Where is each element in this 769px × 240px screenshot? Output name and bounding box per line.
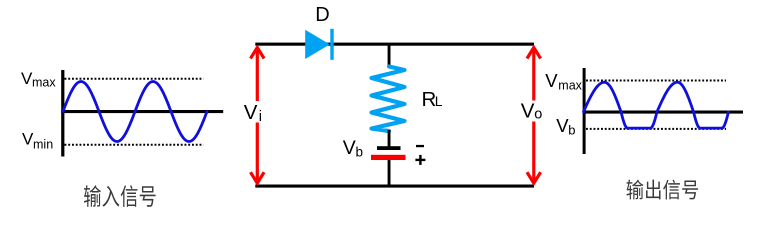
diode D cathode bar	[330, 29, 333, 60]
caption 输入信号	[84, 185, 156, 207]
output clipped sine wave	[584, 82, 729, 128]
output Vmax dotted level line	[586, 80, 726, 82]
svg-text:b: b	[568, 123, 575, 138]
resistor RL zigzag	[372, 67, 405, 132]
svg-text:V: V	[521, 99, 535, 122]
input Vmin dotted level line	[65, 144, 204, 146]
wire: top rail to resistor	[388, 45, 391, 67]
input Vmax dotted level line	[65, 78, 204, 80]
diode D (anode triangle)	[305, 30, 330, 59]
svg-text:V: V	[343, 137, 356, 159]
battery minus sign	[416, 145, 424, 147]
battery Vb positive plate (red, long)	[371, 155, 406, 160]
caption 输出信号	[626, 180, 698, 200]
svg-text:V: V	[244, 101, 258, 124]
battery Vb negative plate (black, short)	[377, 146, 401, 150]
bottom rail wire	[255, 185, 534, 188]
battery plus sign	[415, 159, 425, 161]
wire: resistor to battery	[388, 130, 391, 147]
svg-text:D: D	[315, 4, 329, 26]
label Vi	[241, 101, 264, 123]
svg-text:o: o	[534, 107, 542, 123]
input waveform horizontal axis	[61, 110, 223, 113]
svg-text:max: max	[558, 79, 582, 93]
wire: battery to bottom rail	[388, 160, 391, 185]
label Vo	[519, 101, 544, 122]
input waveform vertical axis	[61, 70, 64, 157]
Vi measurement arrow (double-headed, red)	[251, 48, 265, 184]
Vo measurement arrow (double-headed, red)	[527, 48, 541, 184]
svg-text:V: V	[545, 70, 558, 91]
top rail wire	[255, 43, 534, 46]
output waveform horizontal axis	[583, 111, 743, 114]
input sine wave	[63, 82, 207, 142]
svg-text:i: i	[259, 109, 262, 125]
svg-text:min: min	[33, 137, 53, 151]
svg-text:b: b	[356, 144, 364, 159]
output Vb dotted level line	[586, 128, 726, 130]
svg-text:max: max	[32, 76, 56, 90]
svg-text:L: L	[435, 93, 443, 109]
output waveform vertical axis	[583, 68, 586, 154]
